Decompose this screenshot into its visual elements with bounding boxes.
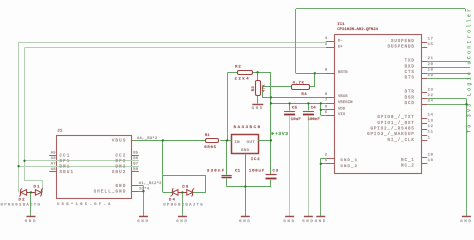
svg-text:D+: D+ (338, 46, 343, 50)
svg-text:R1: R1 (205, 134, 211, 138)
svg-text:17: 17 (428, 37, 434, 41)
svg-text:D-: D- (338, 40, 343, 44)
svg-text:GPIO2_/_RS485: GPIO2_/_RS485 (371, 126, 415, 131)
svg-text:7: 7 (325, 99, 327, 103)
svg-text:GND: GND (252, 107, 264, 111)
svg-text:12: 12 (428, 125, 434, 129)
svg-text:330nF: 330nF (207, 170, 226, 174)
svg-text:CC1: CC1 (60, 155, 71, 159)
svg-text:NC_2: NC_2 (401, 165, 415, 169)
svg-text:C1: C1 (235, 170, 241, 174)
svg-text:S1*4: S1*4 (139, 187, 150, 192)
svg-text:100nF: 100nF (308, 118, 321, 122)
svg-text:VBUS: VBUS (112, 140, 127, 144)
svg-text:GND: GND (176, 220, 188, 224)
svg-text:11: 11 (428, 131, 434, 135)
svg-text:0R05: 0R05 (204, 146, 217, 150)
svg-text:TXD: TXD (405, 60, 415, 64)
svg-text:GND: GND (283, 220, 295, 224)
svg-text:IN: IN (234, 141, 240, 145)
svg-text:DN1: DN1 (60, 165, 71, 169)
svg-text:GND: GND (137, 220, 149, 224)
svg-text:A1,_B12*2: A1,_B12*2 (139, 181, 162, 186)
svg-text:CC2: CC2 (116, 155, 127, 159)
svg-text:DP1: DP1 (60, 160, 71, 164)
svg-text:RTS: RTS (405, 77, 415, 81)
svg-text:GND: GND (302, 220, 314, 224)
svg-text:VBUS: VBUS (338, 95, 348, 99)
svg-text:13: 13 (428, 119, 434, 123)
svg-text:R4: R4 (301, 93, 307, 97)
svg-text:GND_1: GND_1 (340, 159, 358, 163)
svg-text:24: 24 (428, 100, 434, 104)
svg-text:RI_/_CLK: RI_/_CLK (388, 138, 415, 143)
svg-text:A6: A6 (51, 157, 57, 161)
svg-text:RXD: RXD (405, 65, 415, 69)
svg-text:SUSPENDB: SUSPENDB (388, 45, 415, 49)
svg-text:A8: A8 (51, 168, 57, 172)
svg-text:B7: B7 (133, 162, 138, 166)
svg-text:100uF: 100uF (249, 170, 265, 174)
svg-text:20: 20 (428, 63, 434, 67)
svg-text:18: 18 (428, 69, 434, 73)
svg-text:SUSPEND: SUSPEND (391, 40, 415, 44)
svg-text:D4: D4 (169, 198, 176, 202)
svg-text:J1: J1 (57, 129, 63, 133)
svg-text:14: 14 (428, 114, 434, 118)
svg-text:47k: 47k (262, 84, 267, 92)
svg-text:4.7k: 4.7k (293, 80, 305, 85)
svg-text:1: 1 (428, 136, 431, 140)
svg-text:DN2: DN2 (116, 165, 127, 169)
svg-text:22: 22 (428, 94, 434, 98)
svg-text:GND: GND (239, 220, 251, 224)
svg-text:VDD: VDD (338, 108, 346, 112)
svg-text:SP0502BAJTG: SP0502BAJTG (163, 203, 204, 207)
svg-text:10uF: 10uF (291, 118, 302, 122)
svg-text:21: 21 (428, 57, 434, 61)
svg-text:GND: GND (116, 185, 127, 189)
svg-text:VIO: VIO (338, 113, 346, 117)
svg-text:C4: C4 (311, 106, 317, 110)
svg-text:DTR: DTR (405, 91, 415, 95)
svg-text:GPIO1_/_RXT: GPIO1_/_RXT (377, 121, 414, 126)
svg-text:CTS: CTS (405, 71, 415, 75)
svg-text:GND: GND (315, 220, 327, 224)
svg-text:A7: A7 (51, 162, 56, 166)
svg-text:To 3V3 Logic uController: To 3V3 Logic uController (467, 7, 473, 134)
svg-text:IC1: IC1 (337, 23, 345, 27)
svg-text:D2: D2 (19, 198, 26, 202)
svg-text:A4,_B9*2: A4,_B9*2 (137, 136, 158, 141)
svg-text:19: 19 (428, 74, 434, 78)
svg-text:B6: B6 (133, 157, 139, 161)
svg-text:USB*105-GF-A: USB*105-GF-A (57, 202, 113, 207)
svg-text:BA33BC0: BA33BC0 (234, 126, 262, 130)
svg-text:DCD: DCD (405, 102, 415, 106)
svg-text:16: 16 (428, 159, 434, 163)
svg-text:GPIO3_/_WAKEUP: GPIO3_/_WAKEUP (367, 132, 415, 137)
svg-text:R2: R2 (235, 66, 242, 70)
svg-text:VREGIN: VREGIN (338, 101, 353, 105)
svg-text:GND: GND (25, 220, 37, 224)
svg-text:22k4: 22k4 (235, 76, 251, 81)
svg-text:23: 23 (428, 88, 434, 92)
svg-text:OUT: OUT (247, 141, 256, 145)
svg-text:GND: GND (460, 220, 472, 224)
svg-text:SHELL_GND: SHELL_GND (94, 190, 127, 194)
svg-text:NC_1: NC_1 (401, 159, 415, 163)
svg-text:R3: R3 (252, 86, 256, 92)
svg-text:SBU1: SBU1 (60, 171, 75, 175)
svg-text:D1: D1 (34, 186, 41, 190)
svg-text:10: 10 (428, 153, 434, 157)
svg-text:RSTB: RSTB (338, 71, 348, 75)
svg-text:GPIO0_/_TXT: GPIO0_/_TXT (377, 115, 414, 120)
svg-text:GND_2: GND_2 (340, 165, 358, 169)
svg-text:CP2102N-A02-QFN24: CP2102N-A02-QFN24 (337, 28, 378, 32)
svg-text:SBU2: SBU2 (112, 171, 127, 175)
svg-text:C3: C3 (273, 170, 279, 174)
svg-text:IC2: IC2 (251, 158, 261, 162)
svg-text:B8: B8 (133, 168, 139, 172)
svg-text:GND: GND (241, 149, 250, 153)
svg-text:D3: D3 (182, 186, 189, 190)
svg-text:DSR: DSR (405, 96, 415, 100)
svg-text:SP0502BAJTG: SP0502BAJTG (1, 203, 42, 207)
svg-text:B5: B5 (133, 152, 139, 156)
svg-text:A5: A5 (51, 152, 57, 156)
svg-text:DP2: DP2 (116, 160, 127, 164)
svg-text:+3V3: +3V3 (275, 132, 289, 137)
svg-text:15: 15 (428, 43, 434, 47)
svg-text:C5: C5 (292, 106, 298, 110)
